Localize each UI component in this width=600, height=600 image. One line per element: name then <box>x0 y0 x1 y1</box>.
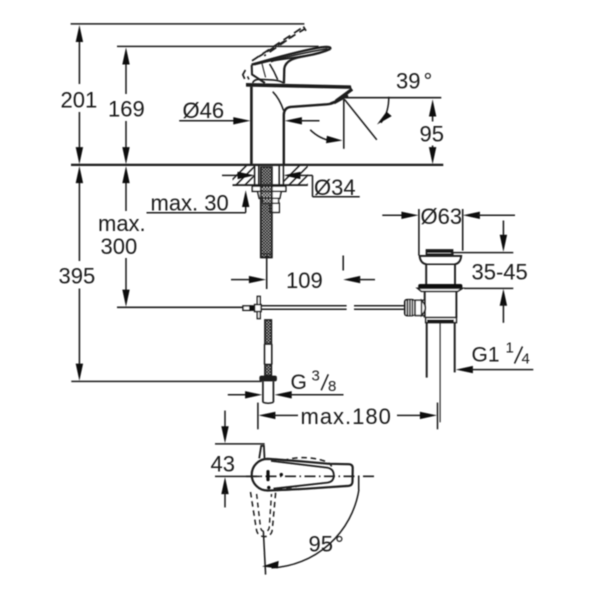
lever pivot beak <box>243 70 249 80</box>
counter hatch left <box>226 164 275 186</box>
nut step <box>263 198 279 203</box>
rotated axis line <box>263 532 265 575</box>
dimension G38 <box>228 368 344 399</box>
svg-text:300: 300 <box>101 234 138 259</box>
svg-text:1: 1 <box>506 340 514 357</box>
waste coupling ring <box>426 318 457 323</box>
counter hatch right <box>279 164 328 186</box>
dimension 39deg <box>346 69 442 125</box>
dimension D63 <box>382 204 515 256</box>
spout body junction curve <box>273 92 284 111</box>
handle inner taper <box>271 461 334 489</box>
dimension 95 <box>420 99 444 164</box>
svg-text:G1: G1 <box>472 344 500 367</box>
dashed rotated lever lower crossing <box>277 486 299 490</box>
dimension 43 <box>211 411 265 508</box>
svg-text:201: 201 <box>61 88 98 113</box>
dashed raised lever line 2 <box>259 29 305 57</box>
shank tube outer left <box>254 165 256 185</box>
svg-text:109: 109 <box>286 268 323 293</box>
waste centerline <box>439 323 441 423</box>
svg-text:43: 43 <box>211 452 235 477</box>
handle centerline dash-dot <box>246 475 374 477</box>
horizontal popup rod <box>261 306 404 310</box>
dimension 395 <box>59 166 96 381</box>
lever sketch line <box>262 64 266 78</box>
handle top view outline <box>252 459 353 491</box>
extension line top (handle raised level) <box>71 23 305 25</box>
stream diagonal line <box>344 99 377 140</box>
counter top line <box>71 164 443 166</box>
rod clamp black block <box>250 305 255 311</box>
svg-text:max.: max. <box>98 211 146 236</box>
dimension max180 <box>258 403 438 430</box>
faucet body right edge and spout underside <box>284 102 335 165</box>
shank tube inner left <box>258 165 260 185</box>
counter bottom line <box>233 184 308 186</box>
svg-text:169: 169 <box>108 97 145 122</box>
svg-text:max.180: max.180 <box>301 404 392 429</box>
svg-text:4: 4 <box>522 351 530 368</box>
waste tail pipe <box>427 323 455 378</box>
dashed raised lever tip <box>303 27 306 31</box>
waste body <box>425 291 457 317</box>
stream vertical line <box>343 99 345 149</box>
dimension 169 <box>108 47 145 164</box>
stream swing arc <box>310 130 342 144</box>
washer plate <box>252 186 285 191</box>
handle dot bottom <box>267 486 270 489</box>
popup waste flange <box>420 256 462 285</box>
rod clamp left box <box>243 306 250 310</box>
svg-text:95°: 95° <box>309 532 344 557</box>
dimension 95deg arc <box>262 490 359 569</box>
flexible hose plain section <box>265 344 272 365</box>
svg-text:35-45: 35-45 <box>472 260 528 285</box>
shank tube outer right <box>282 165 284 185</box>
threaded shank <box>261 167 272 258</box>
dashed rotated lever big end top <box>283 458 332 467</box>
mounting nut <box>258 191 282 198</box>
svg-text:G: G <box>291 371 307 394</box>
handle tab (lever tip) <box>259 446 264 459</box>
faucet body left edge <box>250 87 253 165</box>
popup waste cap <box>426 250 454 255</box>
svg-text:Ø46: Ø46 <box>183 98 225 123</box>
svg-text:Ø34: Ø34 <box>314 175 356 200</box>
hose stub box <box>270 203 279 212</box>
svg-text:max. 30: max. 30 <box>151 191 229 216</box>
svg-text:Ø63: Ø63 <box>421 204 463 229</box>
waste flange lip <box>418 288 463 291</box>
extension line lever level <box>117 45 319 47</box>
knob collar <box>415 300 425 315</box>
dashed raised lever line 1 <box>252 27 303 61</box>
rod clamp white box <box>255 305 262 312</box>
lever blade inner line <box>254 49 328 65</box>
rod reference line <box>117 306 243 308</box>
dimension D34 <box>222 172 360 200</box>
lever top edge <box>252 47 331 65</box>
dimension max30 <box>147 190 250 215</box>
svg-text:39°: 39° <box>396 69 432 94</box>
handle dot right <box>280 473 283 476</box>
svg-text:95: 95 <box>420 122 444 147</box>
waste gasket <box>418 284 462 289</box>
spout deck band <box>246 83 352 89</box>
svg-text:8: 8 <box>328 378 336 395</box>
cartridge dome <box>253 79 284 83</box>
dimension 201 <box>61 25 98 164</box>
dashed raised lever line 3 <box>264 35 294 56</box>
lever underside and neck <box>284 49 330 84</box>
lever back edge <box>252 65 265 83</box>
vertical tick right of handle <box>358 476 360 490</box>
svg-text:3: 3 <box>312 368 320 385</box>
flexible hose braided lower <box>265 365 272 376</box>
dimension 35-45 <box>451 221 528 323</box>
hose bottom reference line <box>71 380 261 382</box>
svg-text:395: 395 <box>59 264 96 289</box>
handle black bar <box>266 470 269 481</box>
dimension G1 1/4 <box>456 340 534 374</box>
aerator <box>331 89 353 103</box>
flexible hose braided upper <box>265 320 272 344</box>
knurled knob <box>404 299 415 317</box>
hose end tube <box>263 381 274 403</box>
lever underside left part <box>271 56 306 62</box>
popup rod pin <box>257 296 260 318</box>
lever neck crease <box>270 64 278 80</box>
dimension 109 <box>231 256 375 294</box>
dimension max300 <box>98 166 146 307</box>
dashed rotated lever outer <box>251 491 276 537</box>
shank tube inner right <box>278 165 280 185</box>
dimension D46 <box>179 98 319 125</box>
dashed rotated lever inner <box>257 494 272 532</box>
G38 hose nut <box>259 376 277 382</box>
